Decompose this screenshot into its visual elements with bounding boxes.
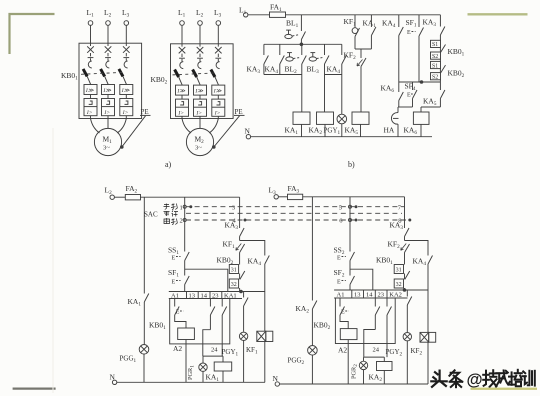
wire rail bottom-left	[141, 196, 240, 198]
svg-text:SF2: SF2	[334, 268, 345, 279]
wire join right pair	[325, 74, 342, 76]
svg-text:SF1: SF1	[168, 268, 179, 279]
svg-text:E: E	[172, 280, 176, 286]
svg-text:S2: S2	[432, 54, 438, 60]
breaker pole 5	[194, 26, 207, 120]
blade wedge pole 6	[210, 69, 219, 85]
terminal row A1/13/14/23/KA1	[169, 291, 265, 293]
svg-text:KA3: KA3	[225, 221, 239, 232]
wire	[398, 36, 400, 83]
svg-text:PGY1: PGY1	[222, 348, 239, 358]
linkage dashes	[81, 72, 124, 74]
wire top rail b	[286, 14, 441, 16]
svg-text:KF1: KF1	[223, 240, 236, 251]
faint panel edge	[52, 128, 54, 393]
wire BL1 drop	[300, 15, 302, 31]
svg-text:SS2: SS2	[334, 246, 345, 257]
wire	[248, 14, 270, 16]
wire pole3 to motor	[117, 119, 126, 134]
wire to lamp branch	[203, 330, 211, 356]
contact KA1 lamp PGY1	[243, 292, 245, 298]
svg-text:L2: L2	[104, 8, 112, 19]
breaker pole 6	[212, 26, 225, 120]
lamp PGG2	[308, 346, 318, 356]
wire to coil KA2	[324, 64, 326, 112]
svg-text:@: @	[467, 371, 483, 389]
KB01 aux contact 2	[404, 274, 406, 280]
relay assembly outline KA2	[335, 298, 395, 344]
svg-text:KB01: KB01	[149, 321, 166, 332]
svg-text:E: E	[337, 256, 341, 262]
wire	[300, 40, 302, 45]
svg-text:KB02: KB02	[151, 75, 168, 86]
lamp PGR2	[363, 357, 365, 361]
svg-text:SAC: SAC	[144, 211, 158, 219]
svg-text:FA2: FA2	[126, 184, 138, 195]
KB01 aux S2	[431, 52, 441, 59]
wire right branch 2 from rail	[404, 197, 406, 228]
svg-text:SF1: SF1	[406, 18, 417, 29]
svg-text:S2: S2	[432, 75, 438, 81]
wire rail N left	[117, 381, 265, 383]
svg-text:KA2: KA2	[369, 373, 383, 384]
breaker pole 4	[176, 26, 189, 120]
svg-text:KB01: KB01	[61, 71, 78, 82]
svg-text:N: N	[245, 127, 251, 136]
lamp PGY1	[337, 114, 347, 124]
wire bypass SF1	[185, 269, 228, 291]
svg-text:32: 32	[231, 282, 237, 288]
KB01 aux S1	[431, 40, 441, 47]
svg-text:S1: S1	[432, 63, 438, 69]
wire to lamp PGY1	[341, 64, 343, 114]
watermark hanzi tou	[431, 371, 446, 387]
svg-text:5: 5	[339, 205, 342, 212]
terminal row A1/13/14/23/KA2	[334, 289, 428, 291]
wire	[397, 124, 399, 137]
svg-text:PE: PE	[235, 108, 243, 116]
breaker box KB02	[171, 44, 234, 119]
wire right branch from rail	[239, 197, 241, 228]
svg-text:KF1: KF1	[246, 346, 258, 356]
blade wedge pole 3	[118, 68, 127, 84]
wire main drop left	[184, 197, 186, 251]
blade wedge pole 4	[173, 69, 182, 85]
SAC dashed line zero	[186, 212, 402, 214]
relay assembly outline KA1	[170, 299, 230, 344]
blade wedge pole 1	[82, 68, 91, 84]
signal relay KF1 box	[264, 292, 266, 332]
wire parallel join	[355, 48, 371, 50]
branch split to KA4	[240, 241, 265, 256]
watermark underline	[471, 388, 538, 390]
svg-text:HA: HA	[384, 126, 395, 135]
KB02 aux S1	[431, 61, 441, 68]
lamp PGG1	[139, 345, 149, 355]
breaker box KB01	[79, 43, 142, 118]
contact KA1 23-24	[221, 299, 223, 307]
hanzi auto	[164, 218, 177, 225]
svg-text:PGG2: PGG2	[288, 357, 305, 367]
svg-text:PGY1: PGY1	[324, 127, 341, 137]
lamp PGY1 (bottom)	[239, 332, 247, 340]
branch split to KA4 (2)	[405, 241, 429, 256]
svg-text:3~: 3~	[195, 145, 202, 152]
blade wedge pole 2	[99, 68, 108, 84]
wire pole6 to motor	[209, 119, 218, 134]
svg-text:a): a)	[165, 160, 172, 169]
svg-text:KA1: KA1	[363, 19, 377, 30]
svg-text:KF2: KF2	[344, 51, 357, 62]
svg-text:L1: L1	[178, 8, 186, 19]
svg-text:24: 24	[373, 347, 380, 354]
motor M1	[94, 128, 121, 155]
svg-text:L2: L2	[196, 8, 204, 19]
svg-text:A2: A2	[173, 344, 182, 353]
breaker pole 3	[120, 25, 133, 119]
svg-text:KA2: KA2	[296, 304, 310, 315]
svg-text:KA4: KA4	[382, 19, 396, 30]
svg-text:L1: L1	[239, 6, 247, 17]
svg-text:E: E	[407, 93, 411, 99]
decorative frame segment top-right	[468, 13, 528, 15]
svg-text:KA4: KA4	[327, 65, 341, 76]
watermark hanzi xun	[523, 371, 535, 386]
coil KA6	[413, 112, 429, 124]
decorative corner frame top-left	[10, 14, 55, 54]
contact KA2 13-14	[374, 298, 376, 307]
svg-text:KB02: KB02	[314, 321, 331, 332]
svg-text:M1: M1	[103, 135, 113, 146]
breaker pole 1	[84, 25, 97, 119]
breaker pole 2	[102, 25, 115, 119]
node alarm bus	[399, 81, 441, 83]
svg-text:PE: PE	[141, 108, 149, 116]
svg-text:L1: L1	[87, 8, 95, 19]
coil KA1	[293, 112, 310, 124]
lamp PGR1	[202, 356, 204, 363]
watermark hanzi pei	[509, 370, 522, 386]
svg-text:KB01: KB01	[376, 256, 393, 267]
svg-text:FA3: FA3	[288, 184, 300, 195]
signal relay KF2 box	[427, 290, 429, 332]
svg-text:23: 23	[378, 292, 385, 299]
svg-text:KA5: KA5	[345, 126, 359, 137]
KB01 aux 32 (2)	[394, 279, 403, 288]
svg-text:2: 2	[180, 218, 183, 225]
svg-text:E: E	[407, 30, 411, 36]
svg-text:b): b)	[348, 160, 355, 169]
svg-text:L3: L3	[122, 8, 130, 19]
svg-text:L2: L2	[105, 186, 113, 197]
svg-text:KA5: KA5	[423, 97, 437, 108]
svg-text:KF1: KF1	[344, 17, 357, 28]
coil KA2	[317, 112, 334, 124]
KB02 aux contact	[239, 274, 241, 280]
svg-text:14: 14	[366, 292, 373, 299]
svg-text:31: 31	[231, 268, 237, 274]
svg-text:31: 31	[396, 268, 402, 274]
wire rail N right	[279, 383, 428, 385]
node junction	[300, 43, 304, 47]
svg-text:7: 7	[398, 205, 402, 212]
svg-text:KA6: KA6	[404, 126, 418, 137]
svg-text:PGY2: PGY2	[386, 348, 403, 358]
svg-text:3~: 3~	[103, 145, 110, 152]
linkage dashes 2	[173, 73, 217, 75]
wire main drop right	[349, 197, 351, 252]
wire bottom rail b	[251, 136, 433, 138]
wire rail bottom-right	[303, 196, 405, 198]
wire to coil KA5	[360, 67, 362, 113]
svg-text:A1: A1	[337, 292, 345, 299]
watermark hanzi cheng	[496, 370, 510, 386]
svg-text:FA1: FA1	[270, 3, 282, 14]
contact KA2 23-24	[386, 298, 388, 307]
svg-text:KA6: KA6	[381, 84, 395, 95]
svg-text:KA4: KA4	[413, 257, 427, 268]
wire join left trio	[264, 74, 302, 76]
svg-text:32: 32	[396, 282, 402, 288]
pushbutton KB02 test	[339, 298, 341, 307]
svg-text:24: 24	[211, 347, 218, 354]
svg-text:E: E	[337, 280, 341, 286]
wire KA1 lamp branch	[143, 197, 145, 293]
wire pole1 to motor	[91, 119, 100, 134]
coil KA1 (bottom)	[222, 356, 224, 362]
svg-text:KB01: KB01	[448, 47, 465, 58]
watermark hanzi ji	[483, 370, 497, 387]
wire bus b	[264, 43, 342, 45]
wire to lamp branch 2	[364, 330, 376, 358]
PE wire to motor 2	[214, 116, 240, 147]
PE wire to motor	[122, 116, 146, 147]
coil KA5	[352, 112, 369, 124]
motor M2	[186, 128, 213, 155]
coil KA2 (bottom)	[383, 357, 385, 361]
contact KA2 lamp PGY2	[406, 290, 408, 297]
svg-text:KA4: KA4	[248, 257, 262, 268]
svg-text:PGR1: PGR1	[187, 365, 195, 380]
svg-text:KF2: KF2	[388, 240, 401, 251]
svg-text:BL1: BL1	[286, 19, 299, 30]
lamp PGY2 (bottom)	[403, 333, 411, 341]
wire pole5 to motor	[199, 119, 201, 129]
blade wedge pole 5	[191, 69, 200, 85]
svg-text:1: 1	[180, 205, 183, 212]
KB02 aux 32	[229, 279, 238, 288]
wire bracket PGR2/KA2coil	[364, 356, 385, 358]
svg-text:KA3: KA3	[423, 18, 437, 29]
wire bracket PGR1/KA1coil	[203, 355, 223, 357]
svg-text:3: 3	[232, 205, 235, 212]
svg-text:SS1: SS1	[168, 246, 179, 257]
wire to coil KA1	[301, 64, 303, 112]
svg-text:KB02: KB02	[448, 69, 465, 80]
hanzi zero-position	[164, 211, 179, 217]
horn HA	[391, 113, 398, 125]
wire pole2 to motor	[107, 119, 109, 129]
decorative gray line bottom-left	[13, 388, 56, 390]
svg-text:BL2: BL2	[285, 65, 298, 76]
wire pole4 to motor	[182, 119, 191, 134]
wire bypass SF2	[350, 269, 373, 290]
svg-text:6: 6	[339, 218, 343, 225]
hanzi manual	[164, 204, 178, 210]
KB02 aux S2	[431, 73, 441, 80]
svg-text:KA1: KA1	[128, 297, 142, 308]
svg-text:SF4: SF4	[405, 82, 416, 93]
svg-text:S1: S1	[432, 42, 438, 48]
svg-text:E: E	[172, 256, 176, 262]
svg-text:KA4: KA4	[265, 65, 279, 76]
watermark hanzi tiao	[449, 370, 462, 387]
pushbutton KB01 test	[174, 299, 176, 307]
svg-text:KA3: KA3	[247, 65, 261, 76]
svg-text:13: 13	[354, 292, 361, 299]
svg-text:KA2: KA2	[389, 292, 402, 299]
contact KA1 13-14	[209, 299, 211, 307]
svg-text:L3: L3	[214, 8, 222, 19]
svg-text:PGG1: PGG1	[120, 355, 137, 365]
svg-text:KA1: KA1	[285, 126, 299, 137]
svg-text:A2: A2	[338, 346, 347, 355]
svg-text:M2: M2	[195, 135, 205, 146]
svg-text:KA1: KA1	[206, 373, 220, 384]
svg-text:PGR2: PGR2	[351, 364, 359, 379]
svg-text:KA2: KA2	[309, 126, 323, 137]
wire KA2 lamp branch	[311, 197, 313, 301]
svg-text:BL3: BL3	[307, 65, 320, 76]
svg-text:KF2: KF2	[411, 347, 423, 357]
